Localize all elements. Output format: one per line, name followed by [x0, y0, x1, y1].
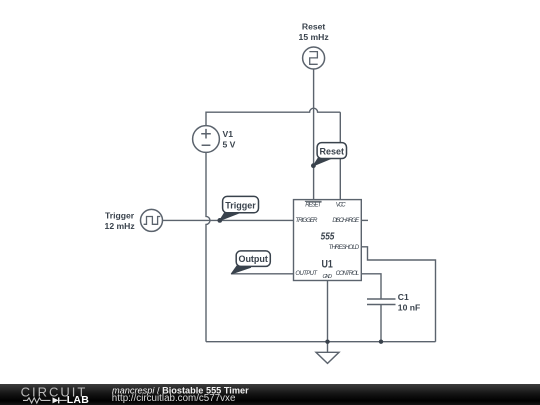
voltage source V1	[193, 126, 236, 153]
wire bottom ground rail	[206, 341, 436, 343]
svg-text:http://circuitlab.com/c577vxe: http://circuitlab.com/c577vxe	[112, 393, 236, 404]
wire THRESHOLD to right rail	[361, 247, 435, 342]
junction dot (GND rail)	[325, 340, 329, 344]
555 timer U1	[294, 200, 362, 281]
svg-text:12 mHz: 12 mHz	[105, 221, 135, 231]
svg-text:555: 555	[321, 231, 335, 242]
svg-text:V1: V1	[223, 129, 234, 139]
ground	[316, 342, 339, 364]
svg-text:VCC: VCC	[336, 202, 346, 209]
capacitor C1	[367, 292, 420, 312]
square wave source Trigger	[105, 209, 163, 231]
wire V1 bottom to ground rail (hops trigger wire)	[206, 153, 210, 342]
wire DISCHARGE stub	[361, 219, 368, 221]
wire GND pin to ground rail	[327, 281, 329, 342]
svg-text:Reset: Reset	[320, 146, 345, 156]
CircuitLab logo resistor	[23, 398, 50, 403]
svg-text:DISCHARGE: DISCHARGE	[332, 217, 360, 224]
svg-text:C1: C1	[398, 292, 409, 302]
node flag Output	[231, 251, 270, 274]
wire Trigger source to TRIGGER pin	[162, 219, 293, 221]
svg-text:RESET: RESET	[305, 202, 322, 209]
wire CONTROL to C1 top	[361, 274, 381, 299]
svg-text:5 V: 5 V	[223, 140, 236, 150]
svg-text:LAB: LAB	[67, 394, 89, 405]
wire VCC rail down to pin	[339, 112, 341, 200]
node flag Reset	[311, 143, 347, 169]
wire V1 top to VCC rail	[206, 108, 340, 125]
svg-text:Trigger: Trigger	[225, 200, 256, 210]
svg-text:GND: GND	[323, 274, 333, 280]
svg-text:OUTPUT: OUTPUT	[295, 270, 318, 277]
wire Reset source down to RESET pin	[313, 69, 315, 200]
node flag Trigger	[217, 196, 258, 222]
svg-text:THRESHOLD: THRESHOLD	[329, 244, 360, 251]
svg-text:Output: Output	[238, 254, 268, 264]
footer bar	[0, 384, 540, 405]
svg-text:CONTROL: CONTROL	[336, 270, 360, 277]
svg-text:TRIGGER: TRIGGER	[295, 217, 318, 224]
svg-text:Trigger: Trigger	[105, 211, 135, 221]
svg-text:10 nF: 10 nF	[398, 303, 420, 313]
svg-text:15 mHz: 15 mHz	[299, 32, 329, 42]
svg-text:Reset: Reset	[302, 22, 326, 32]
square wave source Reset	[299, 22, 329, 69]
CircuitLab logo diode	[53, 397, 59, 403]
junction dot (C1 bottom)	[379, 340, 383, 344]
svg-text:U1: U1	[322, 259, 333, 271]
wire C1 bottom to ground rail	[380, 305, 382, 342]
wire OUTPUT	[232, 273, 294, 275]
